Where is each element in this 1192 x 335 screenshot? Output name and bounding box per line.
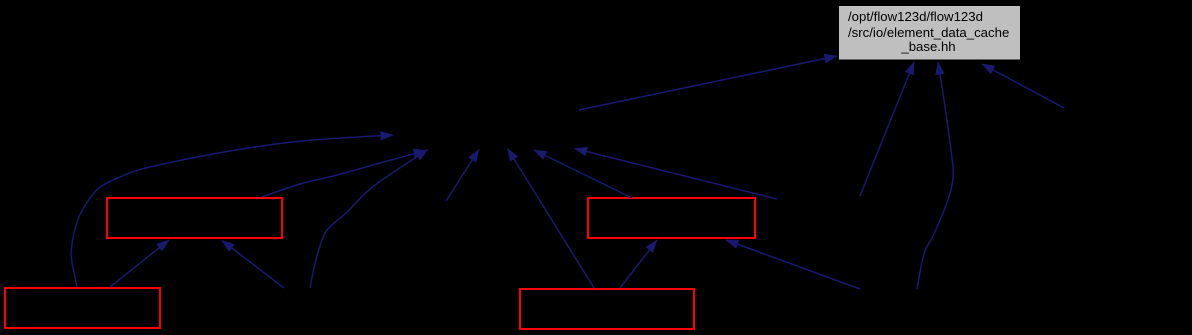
node root: /opt/flow123d/flow123d/src/io/element_data_cache_base.hh bbox=[839, 6, 1020, 60]
edge E11: hidden node -> root bbox=[860, 62, 914, 196]
edge E1: box2 -> mid node (long left curve) bbox=[71, 135, 393, 287]
edge E8: box3 -> mid node bbox=[534, 150, 632, 198]
edge E3: hidden node -> box1 bbox=[222, 241, 284, 289]
edge E7: box4 -> mid node bbox=[508, 149, 595, 289]
svg-text:/src/io/element_data_cache: /src/io/element_data_cache bbox=[848, 25, 1009, 40]
node box1 (red, row 2 left) bbox=[107, 198, 282, 238]
edge E9: hidden node -> mid node bbox=[575, 149, 778, 200]
edge E6: hidden node -> mid node bbox=[446, 150, 479, 202]
edge E2: box2 -> box1 bbox=[110, 240, 169, 287]
edge E10: mid node -> root (left edge) bbox=[579, 56, 837, 110]
edge E12: hidden node -> root (right curve) bbox=[917, 62, 953, 289]
edge E4: hidden node -> mid node (curve) bbox=[310, 150, 428, 289]
edge E14: box4 -> box3 bbox=[620, 240, 657, 288]
svg-text:/opt/flow123d/flow123d: /opt/flow123d/flow123d bbox=[848, 9, 983, 24]
edge E15: hidden node -> box3 bbox=[726, 240, 860, 289]
node box3 (red, row 2 right) bbox=[588, 198, 755, 238]
edge E5: box1 -> mid node bbox=[262, 151, 426, 198]
svg-text:_base.hh: _base.hh bbox=[900, 39, 955, 54]
edge E13: far right hidden node -> root bbox=[982, 64, 1064, 108]
node box2 (red, row 3 left) bbox=[5, 288, 160, 328]
node box4 (red, row 3 middle) bbox=[520, 289, 694, 329]
